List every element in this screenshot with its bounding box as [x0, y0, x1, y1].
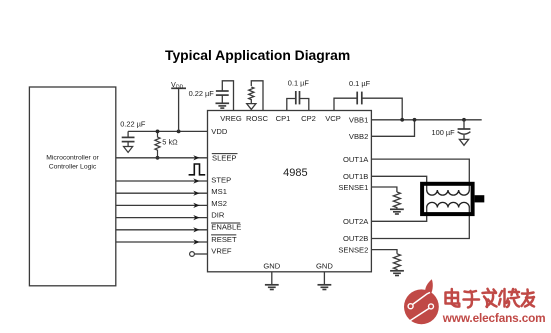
glyph fa [483, 289, 497, 307]
ground (earth) GND1 [265, 284, 279, 286]
svg-text:0.22 µF: 0.22 µF [120, 120, 146, 129]
svg-text:Controller Logic: Controller Logic [49, 164, 97, 171]
GND pin 1 wire [271, 272, 273, 284]
svg-text:VREG: VREG [220, 114, 242, 123]
ground (earth) under C2 [216, 102, 230, 104]
VCP pin wire [334, 98, 357, 110]
wire VBB1 rail [371, 119, 481, 121]
wire OUT1B [371, 176, 426, 190]
arrowheads into IC [193, 155, 199, 244]
svg-text:0.1 µF: 0.1 µF [288, 78, 310, 87]
arrow SLEEP [193, 155, 199, 160]
motor shaft [475, 195, 485, 202]
CP1 pin wire [287, 99, 296, 111]
svg-text:Microcontroller or: Microcontroller or [46, 155, 99, 162]
svg-text:0.22 µF: 0.22 µF [189, 89, 215, 98]
VREG pin wire [222, 81, 233, 111]
capacitor C5 100uF [463, 120, 465, 129]
arrow DIR [193, 215, 199, 220]
svg-text:SLEEP: SLEEP [212, 154, 236, 163]
arrow MS2 [193, 203, 199, 208]
junction dot R1/SLEEP [156, 156, 160, 160]
svg-text:VCP: VCP [325, 114, 341, 123]
ground (earth) under R3 [390, 208, 404, 210]
wire ENABLE [116, 229, 208, 231]
capacitor C2 0.22uF at VREG [216, 90, 229, 92]
svg-text:DIR: DIR [211, 210, 225, 219]
resistor R3 sense1 [393, 192, 400, 209]
capacitor C1 0.22uF on VDD [127, 131, 129, 137]
wire OUT1A [371, 159, 469, 190]
svg-text:MS2: MS2 [211, 199, 227, 208]
svg-text:0.1 µF: 0.1 µF [349, 79, 371, 88]
ground (earth) under R4 [390, 270, 404, 272]
svg-text:OUT2B: OUT2B [343, 234, 368, 243]
svg-text:VDD: VDD [211, 127, 228, 136]
svg-text:DD: DD [176, 85, 184, 91]
svg-text:Typical Application Diagram: Typical Application Diagram [165, 47, 350, 63]
ground (earth) GND2 [318, 284, 332, 286]
svg-text:RESET: RESET [211, 235, 237, 244]
winding 1 [427, 190, 470, 195]
GND pin 2 wire [323, 272, 325, 284]
svg-text:VBB2: VBB2 [349, 132, 368, 141]
svg-text:www.elecfans.com: www.elecfans.com [442, 311, 546, 325]
svg-text:GND: GND [263, 262, 280, 271]
glyph dian [446, 289, 460, 307]
wire VREF [194, 253, 207, 255]
wire VCP cap to VBB rail [362, 98, 402, 120]
resistor R1 5k [155, 131, 160, 158]
wire SLEEP [116, 157, 208, 159]
capacitor C3 0.1uF between CP1 CP2 [295, 91, 297, 104]
svg-text:VBB1: VBB1 [349, 115, 368, 124]
junction dot vbb a [400, 118, 404, 122]
pulse symbol on STEP [189, 164, 206, 175]
wire OUT2A [371, 208, 426, 222]
watermark logo elecfans [404, 279, 439, 324]
VREF input circle [190, 252, 195, 257]
svg-text:4985: 4985 [283, 167, 307, 179]
junction dot vbb c [462, 118, 466, 122]
svg-text:CP2: CP2 [301, 114, 316, 123]
svg-text:STEP: STEP [211, 175, 231, 184]
arrow RESET [193, 239, 199, 244]
IC 4985 U1 [208, 111, 372, 272]
ground (open triangle) under C1 [124, 147, 133, 153]
svg-text:100 µF: 100 µF [432, 128, 456, 137]
CP2 pin wire [300, 99, 309, 111]
resistor R4 sense2 [394, 254, 401, 271]
wire SENSE1 [371, 187, 397, 192]
wire DIR [116, 217, 208, 219]
ROSC pin wire [251, 81, 263, 111]
svg-text:5 kΩ: 5 kΩ [162, 137, 178, 146]
arrow ENABLE [193, 227, 199, 232]
svg-text:MS1: MS1 [211, 187, 227, 196]
svg-text:OUT2A: OUT2A [343, 217, 369, 226]
glyph you [522, 290, 535, 307]
svg-text:CP1: CP1 [276, 114, 291, 123]
svg-text:GND: GND [316, 262, 333, 271]
junction dot VDD/C [156, 130, 160, 134]
resistor R2 at ROSC [249, 87, 254, 103]
wire STEP [116, 180, 208, 182]
junction dot vbb b [413, 118, 417, 122]
watermark text 电子发烧友 [446, 289, 535, 308]
wire RESET [116, 241, 208, 243]
svg-text:ROSC: ROSC [246, 114, 268, 123]
glyph zi [464, 291, 480, 308]
ground (open triangle) under C5 [459, 139, 468, 145]
winding 2 [427, 202, 470, 207]
wire MS2 [116, 204, 208, 206]
svg-text:OUT1B: OUT1B [343, 172, 368, 181]
wire SENSE2 [371, 250, 397, 254]
svg-text:OUT1A: OUT1A [343, 155, 369, 164]
svg-text:VREF: VREF [211, 247, 232, 256]
svg-text:SENSE2: SENSE2 [338, 245, 368, 254]
wire VBB2 [371, 120, 414, 137]
stepper motor M1 [422, 184, 484, 214]
wire MS1 [116, 192, 208, 194]
microcontroller box U2 [29, 87, 115, 286]
arrow MS1 [193, 191, 199, 196]
glyph shao [499, 289, 519, 307]
wire OUT2B [371, 208, 469, 239]
wire VDD [128, 130, 207, 132]
ground (open triangle) under R2 [247, 104, 256, 110]
junction dot VDD supply [177, 130, 181, 134]
supply VDD rail [178, 88, 180, 131]
svg-text:ENABLE: ENABLE [211, 223, 241, 232]
arrow STEP [193, 178, 199, 183]
capacitor C4 0.1uF at VCP [356, 92, 358, 105]
svg-text:SENSE1: SENSE1 [338, 183, 368, 192]
